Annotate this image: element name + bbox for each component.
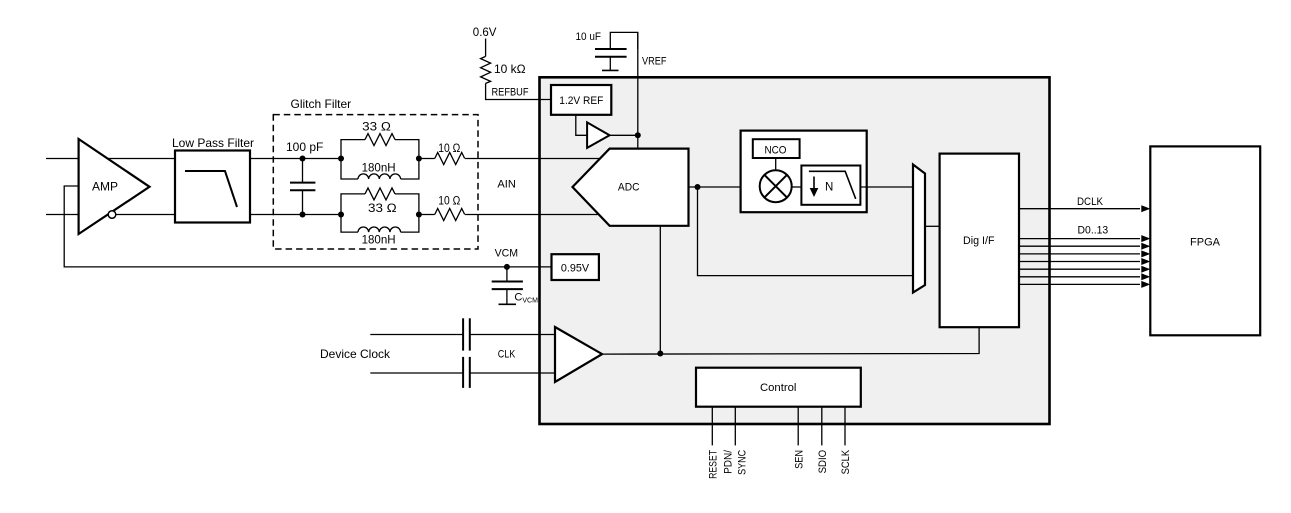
svg-text:SDIO: SDIO bbox=[817, 450, 829, 474]
svg-text:Device Clock: Device Clock bbox=[320, 347, 391, 361]
inductor 180nH top bbox=[358, 174, 401, 179]
wire REF to buffer bbox=[576, 115, 587, 136]
0.95V block bbox=[552, 254, 599, 280]
IC block U1 (ADC device) bbox=[540, 77, 1050, 424]
svg-text:Dig I/F: Dig I/F bbox=[963, 235, 995, 247]
pin RESET bbox=[711, 407, 713, 446]
node dot bbox=[416, 212, 422, 218]
svg-text:100 pF: 100 pF bbox=[286, 140, 323, 154]
node dot ADC output bbox=[695, 184, 701, 190]
node dot VCM bbox=[504, 264, 510, 270]
wire NCO to mixer bbox=[775, 158, 777, 171]
resistor 33 ohm top bbox=[365, 134, 395, 146]
svg-text:10 Ω: 10 Ω bbox=[438, 194, 460, 208]
svg-text:RESET: RESET bbox=[708, 450, 720, 479]
wire device clock top bbox=[370, 334, 463, 336]
ADC core block bbox=[573, 149, 689, 226]
wire device clock bottom bbox=[370, 372, 463, 374]
resistor 10 kOhm (vertical) bbox=[481, 56, 491, 83]
svg-text:AIN: AIN bbox=[497, 179, 516, 191]
svg-text:33 Ω: 33 Ω bbox=[368, 201, 397, 215]
RL pair top: loop bbox=[341, 140, 365, 159]
svg-text:SYNC: SYNC bbox=[737, 450, 749, 475]
NCO block bbox=[753, 139, 800, 158]
wire VREF vertical bbox=[637, 32, 639, 148]
wire REFBUF bbox=[486, 83, 551, 99]
1.2V REF block bbox=[551, 85, 611, 115]
svg-text:10 Ω: 10 Ω bbox=[438, 141, 460, 155]
svg-text:PDN/: PDN/ bbox=[723, 449, 735, 474]
capacitor CVCM bbox=[506, 267, 508, 282]
svg-text:0.95V: 0.95V bbox=[561, 263, 590, 275]
svg-text:NCO: NCO bbox=[765, 144, 787, 156]
wire D bus line 6 bbox=[1019, 276, 1140, 278]
serializer/mux trapezoid bbox=[913, 165, 925, 293]
capacitor coupling top bbox=[462, 318, 464, 350]
pin PDN/SYNC bbox=[734, 407, 736, 446]
decimation filter block bbox=[801, 166, 860, 205]
svg-text:180nH: 180nH bbox=[362, 233, 396, 247]
Control block bbox=[696, 368, 861, 407]
svg-text:CLK: CLK bbox=[498, 349, 516, 361]
pin SCLK bbox=[844, 407, 846, 446]
node dot VREF junction bbox=[635, 132, 641, 138]
wire serializer to Dig I/F bbox=[925, 225, 940, 227]
wire top input line to AMP/LPF bbox=[46, 158, 175, 160]
node dot bbox=[416, 156, 422, 162]
wire D bus line 2 bbox=[1019, 245, 1140, 247]
svg-text:D0..13: D0..13 bbox=[1078, 225, 1109, 237]
wire D bus line 4 bbox=[1019, 261, 1140, 263]
svg-text:Glitch Filter: Glitch Filter bbox=[291, 97, 352, 111]
wire + resistor 10 ohm bottom bbox=[419, 214, 435, 216]
DDC block bbox=[741, 131, 867, 213]
node dot bbox=[300, 212, 306, 218]
wire to CLK+ bbox=[470, 334, 555, 336]
wire LPF to glitch filter bottom bbox=[250, 214, 341, 216]
svg-text:AMP: AMP bbox=[92, 180, 118, 194]
svg-text:FPGA: FPGA bbox=[1190, 237, 1221, 249]
resistor 33 ohm bottom bbox=[365, 188, 395, 200]
svg-text:33 Ω: 33 Ω bbox=[362, 120, 391, 134]
inductor 180nH bottom bbox=[358, 227, 401, 232]
wire VOCM feedback from VCM to AMP bbox=[64, 186, 507, 267]
capacitor 100 pF bbox=[302, 159, 304, 183]
node dot bbox=[338, 156, 344, 162]
svg-text:SCLK: SCLK bbox=[840, 449, 852, 474]
wire D bus line 1 bbox=[1019, 238, 1140, 240]
wire clock buffer output bbox=[602, 327, 979, 354]
glitch filter dashed box bbox=[273, 115, 478, 249]
svg-text:180nH: 180nH bbox=[362, 161, 396, 175]
buffer amp (reference buffer) bbox=[587, 122, 610, 147]
node dot clock bbox=[657, 351, 663, 357]
svg-text:REFBUF: REFBUF bbox=[492, 87, 529, 99]
wire mixer to decimation filter bbox=[792, 186, 802, 188]
wire ADC bypass path down and right bbox=[698, 187, 914, 276]
Dig I/F block bbox=[940, 154, 1019, 328]
decimate-by-N down arrow bbox=[813, 177, 815, 191]
wire AIN- into ADC bbox=[465, 214, 599, 216]
wire AIN+ into ADC bbox=[465, 158, 600, 160]
wire ADC clock input bbox=[659, 226, 661, 354]
mixer (multiplier) bbox=[760, 170, 792, 202]
svg-text:10 kΩ: 10 kΩ bbox=[494, 62, 526, 76]
wire D bus line 3 bbox=[1019, 253, 1140, 255]
wire buffer output to VREF node bbox=[610, 134, 638, 136]
svg-text:DCLK: DCLK bbox=[1077, 196, 1104, 208]
inversion bubble on AMP output bbox=[108, 211, 116, 219]
svg-text:Control: Control bbox=[760, 382, 796, 394]
wire D bus line 5 bbox=[1019, 268, 1140, 270]
svg-text:VREF: VREF bbox=[642, 56, 667, 68]
wire ADC output to DDC bbox=[689, 186, 741, 188]
wire to CLK- bbox=[470, 372, 555, 374]
pin SEN bbox=[797, 407, 799, 446]
svg-text:10 uF: 10 uF bbox=[576, 31, 602, 43]
wire 0.6V to resistor bbox=[485, 39, 487, 57]
node dot bbox=[338, 212, 344, 218]
op-amp AMP bbox=[79, 139, 150, 234]
RL pair bottom: loop bbox=[341, 194, 365, 215]
wire bottom input line to AMP/LPF bbox=[46, 214, 175, 216]
capacitor coupling bottom bbox=[462, 357, 464, 388]
svg-text:Low Pass Filter: Low Pass Filter bbox=[172, 136, 254, 150]
svg-text:N: N bbox=[825, 182, 833, 194]
pin SDIO bbox=[821, 407, 823, 446]
node dot bbox=[300, 156, 306, 162]
capacitor 10 uF bbox=[610, 32, 638, 49]
wire DDC to serializer bbox=[860, 186, 913, 188]
wire + resistor 10 ohm top bbox=[419, 158, 435, 160]
svg-text:0.6V: 0.6V bbox=[473, 27, 497, 39]
svg-text:ADC: ADC bbox=[618, 182, 640, 194]
clock buffer bbox=[555, 327, 602, 382]
wire VCM to 0.95V block bbox=[507, 266, 552, 268]
wire D bus line 7 bbox=[1019, 283, 1140, 285]
svg-text:1.2V REF: 1.2V REF bbox=[559, 95, 603, 107]
svg-text:VCM: VCM bbox=[495, 248, 518, 260]
wire DCLK with arrow bbox=[1019, 208, 1140, 210]
svg-text:SEN: SEN bbox=[793, 450, 805, 469]
FPGA block bbox=[1150, 146, 1260, 335]
low pass filter block bbox=[175, 151, 250, 223]
wire LPF to glitch filter top bbox=[250, 158, 341, 160]
